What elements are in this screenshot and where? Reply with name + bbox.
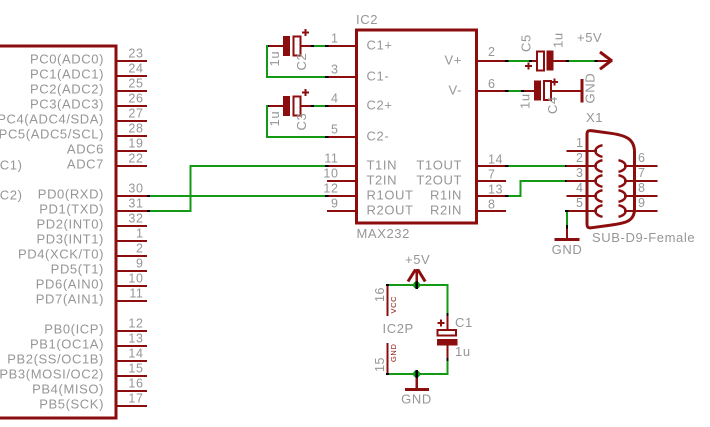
capacitor C4 right lead	[551, 90, 581, 92]
pin stub ADC6 pin 19	[118, 150, 148, 152]
svg-text:3: 3	[576, 166, 584, 180]
X1 left pin stub 5	[567, 210, 589, 212]
capacitor C1 outlined plate	[438, 330, 457, 336]
junction	[325, 136, 329, 138]
svg-text:28: 28	[128, 122, 143, 136]
svg-text:+5V: +5V	[405, 252, 430, 267]
capacitor C4 outlined plate	[544, 81, 551, 100]
capacitor C3 left lead	[268, 105, 284, 107]
svg-text:PD3(INT1): PD3(INT1)	[36, 232, 104, 247]
svg-text:19: 19	[128, 137, 143, 151]
wire net TXD: PD1 horizontal	[150, 210, 190, 212]
junction	[266, 105, 269, 107]
svg-text:PD6(AIN0): PD6(AIN0)	[36, 277, 104, 292]
IC IC1 microcontroller box (partial, clipped at left)	[0, 46, 116, 418]
svg-text:14: 14	[128, 347, 143, 361]
capacitor C3 outlined plate	[294, 97, 301, 116]
IC2 right pin stub T2OUT pin 7	[478, 180, 506, 182]
X1 right pin stub 9	[634, 210, 658, 212]
junction	[595, 60, 598, 62]
wire C3 vertical	[266, 105, 268, 138]
IC2 left pin stub C2+ pin 4	[327, 105, 355, 107]
pin stub PC3(ADC3) pin 26	[118, 105, 148, 107]
svg-text:1u: 1u	[455, 344, 471, 359]
wire net TXD to T1IN	[190, 165, 326, 167]
svg-text:14: 14	[488, 153, 503, 167]
capacitor C4 plus sign	[551, 79, 558, 86]
pin stub PB2(SS/OC1B) pin 14	[118, 360, 148, 362]
svg-text:T1IN: T1IN	[367, 158, 398, 173]
junction	[325, 76, 329, 78]
svg-text:(OC2): (OC2)	[0, 188, 23, 203]
pin stub PB4(MISO) pin 16	[118, 390, 148, 392]
svg-text:+5V: +5V	[577, 30, 602, 45]
pin stub PD4(XCK/T0) pin 2	[118, 255, 148, 257]
svg-text:PC0(ADC0): PC0(ADC0)	[30, 52, 104, 67]
wire C2 vertical	[266, 45, 268, 78]
pin stub ADC7 pin 22	[118, 165, 148, 167]
wire X1 pin5 down	[566, 212, 568, 225]
svg-text:PB4(MISO): PB4(MISO)	[32, 382, 104, 397]
junction C1 bottom	[447, 358, 449, 361]
wire C3 bottom horizontal	[266, 136, 325, 138]
svg-text:1: 1	[576, 136, 584, 150]
junction dot bottom	[413, 370, 420, 377]
svg-text:MAX232: MAX232	[357, 226, 410, 241]
pin end through dot	[415, 281, 418, 289]
X1 female contact pin 3	[588, 180, 597, 182]
svg-text:32: 32	[128, 212, 143, 226]
svg-text:4: 4	[331, 92, 339, 106]
pin stub PB0(ICP) pin 12	[118, 330, 148, 332]
junction pin15	[386, 373, 389, 375]
svg-text:IC2: IC2	[356, 12, 378, 27]
wire R1IN horizontal	[509, 195, 522, 197]
IC2 left pin stub C1+ pin 1	[327, 45, 355, 47]
junction	[325, 105, 329, 107]
capacitor C2 plus sign	[302, 29, 309, 36]
IC2P pin stub VCC pin 16	[387, 286, 389, 316]
svg-text:PB5(SCK): PB5(SCK)	[39, 397, 104, 412]
capacitor C5 plus sign	[525, 63, 532, 70]
junction	[529, 60, 532, 62]
junction	[311, 45, 314, 47]
wire IC2P bottom	[387, 373, 449, 375]
svg-text:PB0(ICP): PB0(ICP)	[44, 322, 104, 337]
capacitor C2 right lead	[301, 45, 312, 47]
supply symbol +5V arrow (points up)	[416, 269, 419, 285]
svg-text:31: 31	[128, 197, 143, 211]
svg-text:9: 9	[331, 197, 339, 211]
pin stub PD7(AIN1) pin 11	[118, 300, 148, 302]
svg-text:C4: C4	[545, 96, 560, 114]
wire right vertical lower	[447, 361, 449, 373]
pin stub PD3(INT1) pin 1	[118, 240, 148, 242]
X1 right pin stub 8	[634, 195, 658, 197]
svg-text:13: 13	[128, 332, 143, 346]
IC2 left pin stub T1IN pin 11	[327, 165, 355, 167]
junction T1OUT	[505, 165, 509, 167]
wire V- to C4	[509, 90, 522, 92]
capacitor C3 right lead	[301, 105, 312, 107]
ground symbol GND (rotated, bar vertical)	[581, 79, 584, 103]
svg-text:C1-: C1-	[367, 69, 390, 84]
svg-text:PC3(ADC3): PC3(ADC3)	[30, 97, 104, 112]
wire right vertical upper	[447, 284, 449, 313]
IC2P pin stub GND pin 15	[387, 343, 389, 373]
IC2 right pin stub R2IN pin 8	[478, 210, 506, 212]
capacitor C3 plus sign	[302, 89, 309, 96]
pin stub PD5(T1) pin 9	[118, 270, 148, 272]
svg-text:4: 4	[576, 181, 584, 195]
wire net C2 to pin	[314, 45, 325, 47]
junction	[325, 45, 329, 47]
svg-text:27: 27	[128, 107, 143, 121]
svg-text:22: 22	[128, 152, 143, 166]
svg-text:6: 6	[638, 151, 646, 165]
svg-text:C1: C1	[455, 315, 473, 330]
svg-text:PD7(AIN1): PD7(AIN1)	[36, 292, 104, 307]
pin stub PD0(RXD) pin 30	[118, 195, 148, 197]
svg-text:GND: GND	[401, 392, 432, 407]
capacitor C1 plus sign	[438, 320, 445, 327]
svg-text:VCC: VCC	[389, 296, 398, 314]
svg-text:5: 5	[331, 123, 339, 137]
X1 female contact pin 9	[624, 210, 634, 212]
svg-text:PD4(XCK/T0): PD4(XCK/T0)	[18, 247, 104, 262]
svg-text:C1+: C1+	[367, 38, 393, 53]
IC2 left pin stub C1- pin 3	[327, 76, 355, 78]
IC2 left pin stub R1OUT pin 12	[327, 195, 355, 197]
wire IC2P top	[387, 284, 448, 286]
IC2 left pin stub C2- pin 5	[327, 136, 355, 138]
capacitor C1 top lead	[447, 316, 449, 329]
svg-text:T2OUT: T2OUT	[416, 173, 462, 188]
ground pin	[566, 229, 568, 239]
svg-text:17: 17	[128, 392, 143, 406]
pin stub PD2(INT0) pin 32	[118, 225, 148, 227]
svg-text:IC2P: IC2P	[383, 321, 414, 336]
svg-text:24: 24	[128, 62, 143, 76]
svg-text:12: 12	[323, 182, 338, 196]
wire R1IN vertical	[520, 180, 522, 197]
junction	[311, 105, 314, 107]
svg-text:PC2(ADC2): PC2(ADC2)	[30, 82, 104, 97]
svg-text:C3: C3	[294, 113, 309, 131]
svg-text:7: 7	[488, 168, 496, 182]
X1 female contact pin 5	[588, 210, 597, 212]
IC2 right pin stub V+ pin 2	[478, 60, 506, 62]
svg-text:C2: C2	[294, 53, 309, 71]
svg-text:15: 15	[373, 357, 387, 372]
svg-text:PC5(ADC5/SCL): PC5(ADC5/SCL)	[0, 127, 104, 142]
svg-text:PC4(ADC4/SDA): PC4(ADC4/SDA)	[0, 112, 104, 127]
svg-text:8: 8	[638, 181, 646, 195]
svg-text:SUB-D9-Female: SUB-D9-Female	[592, 230, 695, 245]
svg-text:9: 9	[638, 196, 646, 210]
X1 female contact pin 4	[588, 195, 597, 197]
capacitor C5 outlined plate	[537, 52, 544, 71]
IC2 right pin stub V- pin 6	[478, 90, 506, 92]
pin stub PC4(ADC4/SDA) pin 27	[118, 120, 148, 122]
svg-text:1u: 1u	[267, 51, 282, 67]
X1 female contact pin 2	[588, 165, 597, 167]
junction R1OUT	[325, 195, 329, 197]
svg-text:V+: V+	[445, 53, 462, 68]
svg-text:1u: 1u	[267, 111, 282, 127]
svg-text:PB1(OC1A): PB1(OC1A)	[30, 337, 104, 352]
pin stub PB1(OC1A) pin 13	[118, 345, 148, 347]
svg-text:R1OUT: R1OUT	[367, 188, 414, 203]
svg-text:PD2(INT0): PD2(INT0)	[36, 217, 104, 232]
pin stub PC0(ADC0) pin 23	[118, 60, 148, 62]
svg-text:C2-: C2-	[367, 129, 390, 144]
svg-text:11: 11	[324, 152, 338, 166]
connector X1 SUB-D9-Female outline	[587, 131, 635, 228]
ground symbol GND below X1	[555, 238, 580, 241]
svg-text:5: 5	[576, 196, 584, 210]
ground symbol GND below IC2P	[405, 388, 429, 391]
svg-text:PB2(SS/OC1B): PB2(SS/OC1B)	[7, 352, 104, 367]
svg-text:1: 1	[136, 227, 144, 241]
wire C2 bottom horizontal	[266, 76, 325, 78]
junction V-	[505, 90, 509, 92]
svg-text:ADC6: ADC6	[67, 142, 104, 157]
pin stub PB5(SCK) pin 17	[118, 405, 148, 407]
ground stem	[416, 378, 419, 388]
svg-text:V-: V-	[449, 83, 462, 98]
svg-text:16: 16	[373, 287, 387, 302]
junction dot top	[413, 281, 420, 288]
svg-text:PC1(ADC1): PC1(ADC1)	[30, 67, 104, 82]
IC2 left pin stub T2IN pin 10	[327, 180, 355, 182]
junction	[566, 60, 569, 62]
svg-text:GND: GND	[583, 73, 598, 104]
X1 left pin stub 1	[567, 150, 589, 152]
X1 female contact pin 1	[588, 150, 597, 152]
X1 left pin stub 4	[567, 195, 589, 197]
capacitor C2 outlined plate	[294, 37, 301, 56]
X1 right pin stub 7	[634, 180, 658, 182]
svg-text:C2+: C2+	[367, 98, 393, 113]
wire to X1 pin 3	[520, 180, 566, 182]
capacitor C2 filled plate	[283, 36, 290, 56]
capacitor C5 filled plate	[547, 51, 554, 71]
pin end through dot	[415, 370, 418, 378]
IC2 right pin stub R1IN pin 13	[478, 195, 506, 197]
svg-text:(OC1): (OC1)	[0, 158, 23, 173]
capacitor C1 bottom lead	[447, 346, 449, 359]
svg-text:R2IN: R2IN	[430, 203, 462, 218]
svg-text:2: 2	[136, 242, 144, 256]
X1 left pin stub 3	[567, 180, 589, 182]
junction PD0	[147, 195, 150, 197]
wire V+ to C5	[509, 60, 530, 62]
junction R1IN	[505, 195, 509, 197]
junction X1 pin2	[565, 165, 569, 167]
capacitor C4 left lead	[524, 90, 535, 92]
svg-text:T1OUT: T1OUT	[416, 158, 462, 173]
junction C1 top	[447, 313, 449, 316]
junction X1 pin3	[565, 180, 569, 182]
IC2 right pin stub T1OUT pin 14	[478, 165, 506, 167]
svg-text:6: 6	[488, 77, 496, 91]
junction pin16	[386, 284, 389, 286]
svg-text:1: 1	[331, 32, 339, 46]
pin stub PC1(ADC1) pin 24	[118, 75, 148, 77]
svg-text:PB3(MOSI/OC2): PB3(MOSI/OC2)	[0, 367, 104, 382]
pin stub PB3(MOSI/OC2) pin 15	[118, 375, 148, 377]
capacitor C1 filled plate	[437, 339, 458, 346]
svg-text:X1: X1	[586, 110, 603, 125]
svg-text:26: 26	[128, 92, 143, 106]
svg-text:25: 25	[128, 77, 143, 91]
pin stub PC2(ADC2) pin 25	[118, 90, 148, 92]
svg-text:13: 13	[488, 183, 503, 197]
X1 female contact pin 7	[624, 180, 634, 182]
X1 left pin stub 2	[567, 165, 589, 167]
svg-text:GND: GND	[389, 344, 398, 362]
svg-text:PD0(RXD): PD0(RXD)	[38, 187, 104, 202]
svg-text:8: 8	[488, 198, 496, 212]
svg-text:23: 23	[128, 47, 143, 61]
junction PD1	[147, 210, 150, 212]
pin stub PC5(ADC5/SCL) pin 28	[118, 135, 148, 137]
junction V+	[505, 60, 509, 62]
capacitor C3 filled plate	[283, 96, 290, 116]
svg-text:T2IN: T2IN	[367, 173, 398, 188]
svg-text:16: 16	[128, 377, 143, 391]
svg-text:15: 15	[128, 362, 143, 376]
svg-text:PD5(T1): PD5(T1)	[51, 262, 104, 277]
svg-text:2: 2	[576, 151, 584, 165]
capacitor C5 left lead	[532, 60, 537, 62]
wire C5 to +5V	[569, 60, 595, 62]
svg-text:C5: C5	[519, 34, 534, 52]
svg-text:3: 3	[331, 63, 339, 77]
junction	[521, 90, 524, 92]
wire net C3 to pin	[314, 105, 325, 107]
junction T1IN	[325, 165, 329, 167]
X1 female contact pin 6	[624, 165, 634, 167]
X1 right pin stub 6	[634, 165, 658, 167]
junction X1 pin5	[565, 210, 569, 212]
wire net TXD vertical	[190, 165, 192, 212]
wire net RXD: PD0 to R1OUT	[150, 195, 325, 197]
pin stub PD6(AIN0) pin 10	[118, 285, 148, 287]
svg-text:7: 7	[638, 166, 646, 180]
svg-text:11: 11	[129, 287, 143, 301]
svg-text:10: 10	[128, 272, 143, 286]
svg-text:ADC7: ADC7	[67, 157, 104, 172]
pin stub PD1(TXD) pin 31	[118, 210, 148, 212]
svg-text:30: 30	[128, 182, 143, 196]
svg-text:2: 2	[488, 45, 496, 59]
X1 female contact pin 8	[624, 195, 634, 197]
IC2 left pin stub R2OUT pin 9	[327, 210, 355, 212]
junction	[566, 225, 568, 229]
junction	[266, 45, 269, 47]
IC U IC2 MAX232 box	[357, 30, 477, 223]
svg-text:1u: 1u	[518, 93, 533, 109]
svg-text:R1IN: R1IN	[430, 188, 462, 203]
svg-text:9: 9	[136, 257, 144, 271]
capacitor C4 filled plate	[534, 81, 541, 101]
svg-text:12: 12	[128, 317, 143, 331]
svg-text:10: 10	[323, 167, 338, 181]
svg-text:GND: GND	[552, 242, 583, 257]
svg-text:1u: 1u	[551, 32, 566, 48]
supply symbol +5V arrow (points right)	[598, 60, 612, 62]
capacitor C2 left lead	[268, 45, 284, 47]
svg-text:PD1(TXD): PD1(TXD)	[39, 202, 104, 217]
svg-text:R2OUT: R2OUT	[367, 203, 414, 218]
wire T1OUT to X1 pin 2	[509, 165, 566, 167]
capacitor C5 right lead	[554, 60, 567, 62]
